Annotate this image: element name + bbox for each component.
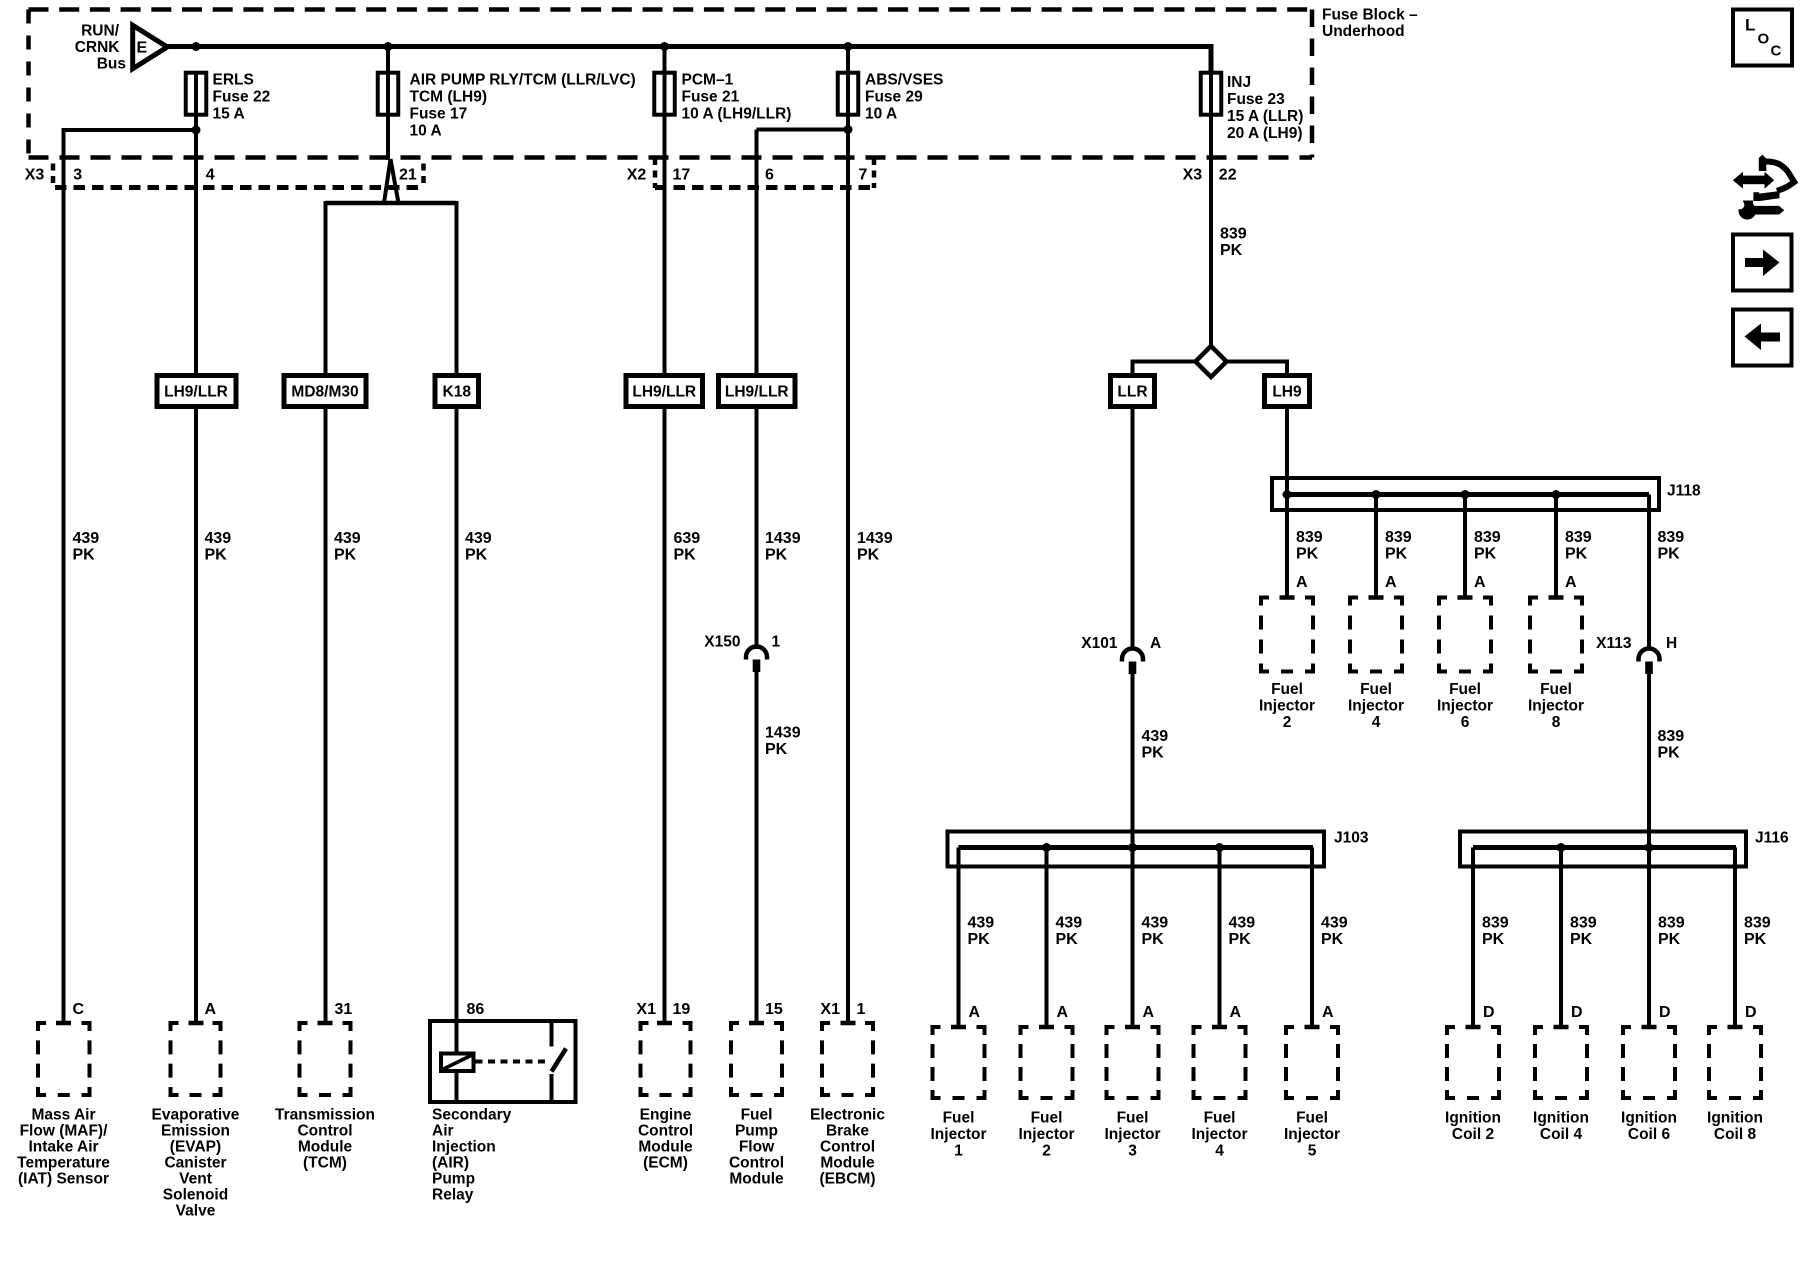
wire label 839 PK (inj 2) — [1296, 529, 1323, 563]
svg-text:1: 1 — [857, 1001, 866, 1018]
fuel injector 2 label — [1259, 681, 1315, 731]
wire 839 PK X113 to J116 — [1647, 674, 1651, 1027]
fuel injector 1 bottom box — [931, 1025, 987, 1100]
svg-text:PK: PK — [1385, 546, 1408, 563]
svg-text:Module: Module — [729, 1171, 784, 1188]
svg-text:Evaporative: Evaporative — [152, 1107, 240, 1124]
fuel pump module T-foot — [749, 1021, 764, 1026]
ignition coil 6 box — [1621, 1025, 1677, 1100]
svg-text:X1: X1 — [636, 1001, 656, 1018]
J103 junction node x1132.5 — [1128, 843, 1137, 852]
svg-text:X2: X2 — [627, 167, 647, 184]
svg-text:A: A — [1474, 574, 1486, 591]
fuse block label — [1322, 7, 1418, 41]
bus source triangle E — [133, 25, 168, 68]
LOC icon box — [1733, 10, 1792, 66]
fuse F21 PCM-1 10A — [654, 72, 791, 123]
svg-text:15 A: 15 A — [213, 106, 245, 123]
splice pack J118 — [1272, 478, 1659, 510]
svg-text:Injection: Injection — [432, 1139, 496, 1156]
fuse F29 ABS/VSES 10A — [838, 72, 944, 123]
svg-text:17: 17 — [673, 167, 691, 184]
wire label 439 PK (bottom inj 5) — [1321, 915, 1348, 949]
svg-text:A: A — [969, 1004, 981, 1021]
svg-text:839: 839 — [1658, 915, 1685, 932]
ECM box — [639, 1021, 693, 1097]
svg-text:4: 4 — [1215, 1143, 1224, 1160]
wire label 839 PK (coil 6) — [1658, 915, 1685, 949]
svg-text:PK: PK — [1658, 745, 1681, 762]
svg-text:J103: J103 — [1334, 830, 1369, 847]
junction node below fuse 29 — [844, 125, 853, 134]
wire 839 PK to ignition coil 8 — [1728, 848, 1743, 1028]
svg-text:Solenoid: Solenoid — [163, 1187, 228, 1204]
svg-text:AIR PUMP RLY/TCM (LLR/LVC): AIR PUMP RLY/TCM (LLR/LVC) — [410, 72, 636, 89]
svg-text:439: 439 — [1056, 915, 1083, 932]
svg-text:Secondary: Secondary — [432, 1107, 512, 1124]
wire 439 PK to fuel injector 3 (bottom) — [1125, 848, 1140, 1028]
fuel injector 4 label — [1348, 681, 1404, 731]
MAF T-foot — [56, 1021, 71, 1026]
EBCM T-foot — [841, 1021, 856, 1026]
ignition coil 8 label — [1707, 1110, 1763, 1144]
splice pack J103 — [948, 832, 1325, 867]
svg-text:1439: 1439 — [765, 530, 801, 547]
wire 439 PK pin3 to MAF — [64, 130, 197, 1023]
svg-text:Fuse 17: Fuse 17 — [410, 106, 468, 123]
wire label 439 PK — [73, 530, 100, 564]
diagnostic wrench icon — [1733, 155, 1794, 220]
svg-text:Injector: Injector — [1348, 698, 1404, 715]
fuel injector 4 bottom label — [1192, 1110, 1248, 1160]
junction node fuse22 output — [192, 126, 201, 135]
svg-text:LLR: LLR — [1117, 384, 1147, 401]
fuel injector 5 bottom box — [1284, 1025, 1340, 1100]
svg-text:A: A — [1230, 1004, 1242, 1021]
pin D ignition coil 8 — [1745, 1004, 1757, 1021]
svg-text:PK: PK — [1474, 546, 1497, 563]
fuel injector 6 box — [1437, 596, 1493, 674]
fuse block pin labels X3 3 4 21 X2 17 6 7 X3 22 — [25, 167, 1237, 184]
inline connector X101 pin A — [1081, 635, 1161, 674]
TCM label — [275, 1107, 375, 1172]
svg-text:5: 5 — [1308, 1143, 1317, 1160]
pin A fuel injector 8 — [1565, 574, 1577, 591]
svg-text:PK: PK — [1142, 745, 1165, 762]
connector tick after pin 21 — [421, 164, 426, 189]
svg-text:PK: PK — [1056, 931, 1079, 948]
svg-text:2: 2 — [1283, 714, 1292, 731]
svg-text:Coil 8: Coil 8 — [1714, 1126, 1757, 1143]
svg-text:D: D — [1571, 1004, 1583, 1021]
svg-text:(TCM): (TCM) — [303, 1155, 347, 1172]
svg-text:PK: PK — [1296, 546, 1319, 563]
svg-text:19: 19 — [673, 1001, 691, 1018]
wire label 439 PK (bottom inj 3) — [1142, 915, 1169, 949]
svg-text:839: 839 — [1385, 529, 1412, 546]
svg-text:D: D — [1745, 1004, 1757, 1021]
fuel injector 4 bottom box — [1192, 1025, 1248, 1100]
next page arrow button — [1733, 235, 1792, 291]
svg-text:Control: Control — [729, 1155, 784, 1172]
connector X3 dashed edge line (left) — [55, 185, 423, 190]
svg-text:Temperature: Temperature — [17, 1155, 110, 1172]
svg-text:Pump: Pump — [735, 1123, 778, 1140]
J103 label — [1334, 830, 1369, 847]
svg-text:PK: PK — [1220, 242, 1243, 259]
svg-text:PK: PK — [334, 547, 357, 564]
wire 839 PK fuse23 to splice — [1209, 73, 1213, 347]
svg-text:Module: Module — [820, 1155, 875, 1172]
svg-text:Coil 4: Coil 4 — [1540, 1126, 1583, 1143]
svg-text:Module: Module — [298, 1139, 353, 1156]
wire 839 PK to ignition coil 6 — [1642, 848, 1657, 1028]
fuse F22 ERLS 15A — [186, 72, 270, 123]
wire 439 PK X101 to J103 — [1131, 674, 1135, 1027]
svg-text:15 A (LLR): 15 A (LLR) — [1227, 108, 1303, 125]
wire 439 PK to fuel injector 1 (bottom) — [951, 848, 966, 1028]
svg-text:439: 439 — [1142, 728, 1169, 745]
pin A fuel injector 6 — [1474, 574, 1486, 591]
svg-text:PK: PK — [1570, 931, 1593, 948]
svg-text:Bus: Bus — [97, 56, 126, 73]
fuel injector 8 box — [1528, 596, 1584, 674]
fuse F23 INJ — [1201, 73, 1304, 142]
pin D ignition coil 2 — [1483, 1004, 1495, 1021]
pin A fuel injector 4 — [1385, 574, 1397, 591]
svg-text:Control: Control — [297, 1123, 352, 1140]
svg-text:31: 31 — [335, 1001, 353, 1018]
svg-text:A: A — [1150, 635, 1161, 652]
svg-text:Fuel: Fuel — [741, 1107, 773, 1124]
svg-text:Injector: Injector — [1192, 1126, 1248, 1143]
secondary AIR pump relay box with coil and switch — [430, 1021, 576, 1102]
svg-text:(EBCM): (EBCM) — [820, 1171, 876, 1188]
svg-text:Injector: Injector — [1437, 698, 1493, 715]
svg-text:PK: PK — [1658, 546, 1681, 563]
svg-text:Mass Air: Mass Air — [31, 1107, 95, 1124]
ignition coil 4 label — [1533, 1110, 1589, 1144]
code box MD8/M30 — [284, 376, 366, 407]
svg-text:4: 4 — [206, 167, 215, 184]
svg-text:3: 3 — [73, 167, 82, 184]
svg-text:PK: PK — [1229, 931, 1252, 948]
EBCM box — [820, 1021, 875, 1097]
splice diamond — [1196, 346, 1227, 377]
svg-text:6: 6 — [1461, 714, 1470, 731]
EVAP canister vent solenoid valve box — [169, 1021, 223, 1097]
svg-text:PK: PK — [1744, 931, 1767, 948]
svg-text:Fuse 21: Fuse 21 — [682, 89, 740, 106]
svg-text:8: 8 — [1552, 714, 1561, 731]
svg-text:Emission: Emission — [161, 1123, 230, 1140]
wire 439 PK to TCM — [324, 201, 328, 1023]
pin 15 fuel pump module — [765, 1001, 783, 1018]
svg-text:PK: PK — [1658, 931, 1681, 948]
wire label 439 PK (X101) — [1142, 728, 1169, 762]
svg-text:CRNK: CRNK — [75, 39, 121, 56]
ignition coil 6 label — [1621, 1110, 1677, 1144]
fuel pump flow control module box — [729, 1021, 784, 1097]
svg-text:PK: PK — [968, 931, 991, 948]
svg-text:RUN/: RUN/ — [81, 23, 120, 40]
svg-text:Fuel: Fuel — [1360, 681, 1392, 698]
svg-text:439: 439 — [465, 530, 492, 547]
svg-text:INJ: INJ — [1227, 74, 1251, 91]
svg-text:Pump: Pump — [432, 1171, 475, 1188]
svg-text:Injector: Injector — [1019, 1126, 1075, 1143]
wire label 839 PK (X113) — [1658, 728, 1685, 762]
wire label 839 PK (inj 8) — [1565, 529, 1592, 563]
svg-text:Intake Air: Intake Air — [28, 1139, 98, 1156]
wire label 839 PK (J118 right) — [1658, 529, 1685, 563]
svg-text:21: 21 — [399, 167, 417, 184]
wire split link — [326, 201, 457, 206]
pin A fuel injector 1 bottom — [969, 1004, 981, 1021]
MAF/IAT sensor label — [17, 1107, 110, 1188]
svg-text:Flow: Flow — [739, 1139, 775, 1156]
wire label 1439 PK (below X150) — [765, 725, 801, 759]
svg-text:Ignition: Ignition — [1533, 1110, 1589, 1127]
svg-text:Engine: Engine — [640, 1107, 692, 1124]
svg-text:PK: PK — [765, 547, 788, 564]
svg-text:Brake: Brake — [826, 1123, 869, 1140]
pin A fuel injector 3 bottom — [1143, 1004, 1155, 1021]
fuel injector 6 label — [1437, 681, 1493, 731]
svg-text:839: 839 — [1570, 915, 1597, 932]
bus junction node at fuse 21 — [660, 42, 669, 51]
wire label 639 PK — [674, 530, 701, 564]
wire label 439 PK — [465, 530, 492, 564]
svg-text:Fuel: Fuel — [1449, 681, 1481, 698]
EBCM label — [810, 1107, 885, 1188]
pin D ignition coil 4 — [1571, 1004, 1583, 1021]
wire 439 PK to AIR pump relay — [455, 201, 459, 1053]
svg-text:Canister: Canister — [164, 1155, 226, 1172]
svg-text:(AIR): (AIR) — [432, 1155, 469, 1172]
svg-text:Air: Air — [432, 1123, 454, 1140]
svg-text:6: 6 — [765, 167, 774, 184]
ECM T-foot — [657, 1021, 672, 1026]
svg-text:10 A: 10 A — [410, 123, 442, 140]
bus junction node at fuse 17 — [384, 42, 393, 51]
inline connector X150 pin 1 — [704, 634, 780, 673]
svg-text:(IAT) Sensor: (IAT) Sensor — [18, 1171, 109, 1188]
RUN/CRNK bus wire — [166, 47, 1211, 76]
pin A EVAP — [205, 1001, 217, 1018]
ignition coil 4 box — [1533, 1025, 1589, 1100]
connector tick X3 left — [51, 164, 56, 189]
splice split at pin 21 — [384, 159, 399, 203]
wire 839 PK to fuel injector 2 — [1280, 495, 1295, 598]
svg-text:Control: Control — [638, 1123, 693, 1140]
fuse F17 AIR PUMP RLY/TCM 10A — [378, 72, 636, 140]
wire 839 PK to fuel injector 4 — [1369, 495, 1384, 598]
svg-text:PK: PK — [73, 547, 96, 564]
previous page arrow button — [1733, 310, 1792, 366]
wire 439 PK pin4 to EVAP valve — [194, 114, 198, 1023]
svg-text:3: 3 — [1128, 1143, 1137, 1160]
svg-text:Ignition: Ignition — [1621, 1110, 1677, 1127]
svg-text:Fuel: Fuel — [943, 1110, 975, 1127]
TCM T-foot — [318, 1021, 333, 1026]
svg-text:1439: 1439 — [765, 725, 801, 742]
svg-text:Injector: Injector — [1105, 1126, 1161, 1143]
svg-text:439: 439 — [73, 530, 100, 547]
svg-text:TCM (LH9): TCM (LH9) — [410, 89, 488, 106]
svg-text:H: H — [1666, 635, 1677, 652]
J116 junction node x1649 — [1645, 843, 1654, 852]
svg-text:LH9/LLR: LH9/LLR — [632, 384, 696, 401]
svg-text:J118: J118 — [1667, 483, 1701, 500]
J118 junction node x1376 — [1372, 490, 1381, 499]
J118 label — [1667, 483, 1701, 500]
svg-text:Fuse 29: Fuse 29 — [865, 89, 923, 106]
pin A fuel injector 4 bottom — [1230, 1004, 1242, 1021]
svg-text:ERLS: ERLS — [213, 72, 254, 89]
svg-text:E: E — [137, 40, 148, 57]
J116 label — [1755, 830, 1789, 847]
svg-text:22: 22 — [1219, 167, 1237, 184]
wire 839 PK to ignition coil 2 — [1466, 848, 1481, 1028]
pin 31 TCM — [335, 1001, 353, 1018]
svg-text:Relay: Relay — [432, 1187, 474, 1204]
wire 839 PK to fuel injector 8 — [1549, 495, 1564, 598]
svg-text:C: C — [1771, 43, 1782, 60]
wire label 839 PK (INJ) — [1220, 226, 1247, 260]
RUN/CRNK Bus label — [75, 23, 126, 73]
svg-text:Fuel: Fuel — [1031, 1110, 1063, 1127]
svg-text:Fuel: Fuel — [1540, 681, 1572, 698]
svg-text:839: 839 — [1220, 226, 1247, 243]
svg-text:Electronic: Electronic — [810, 1107, 885, 1124]
svg-text:A: A — [1565, 574, 1577, 591]
svg-text:L: L — [1745, 16, 1755, 35]
fuel injector 2 bottom label — [1019, 1110, 1075, 1160]
svg-text:Coil 6: Coil 6 — [1628, 1126, 1671, 1143]
svg-text:A: A — [205, 1001, 217, 1018]
J118 junction node x1287 — [1283, 490, 1292, 499]
svg-text:PK: PK — [674, 547, 697, 564]
pin D ignition coil 6 — [1659, 1004, 1671, 1021]
svg-text:839: 839 — [1474, 529, 1501, 546]
svg-text:PK: PK — [465, 547, 488, 564]
wire label 839 PK (coil 2) — [1482, 915, 1509, 949]
svg-text:PK: PK — [205, 547, 228, 564]
svg-text:X101: X101 — [1081, 635, 1118, 652]
wire 839 PK to ignition coil 4 — [1554, 848, 1569, 1028]
wire label 1439 PK — [765, 530, 801, 564]
svg-text:Injector: Injector — [1259, 698, 1315, 715]
inline connector X113 pin H — [1596, 635, 1677, 674]
svg-text:4: 4 — [1372, 714, 1381, 731]
connector tick X2 left — [653, 158, 658, 188]
svg-text:A: A — [1057, 1004, 1069, 1021]
svg-text:Injector: Injector — [931, 1126, 987, 1143]
svg-text:Ignition: Ignition — [1707, 1110, 1763, 1127]
bus junction node at fuse 29 — [844, 42, 853, 51]
svg-text:PK: PK — [1142, 931, 1165, 948]
splice pack J116 — [1460, 832, 1746, 867]
J103 junction node x1219.5 — [1215, 843, 1224, 852]
svg-text:Injector: Injector — [1284, 1126, 1340, 1143]
svg-text:PK: PK — [1321, 931, 1344, 948]
fuel injector 4 box — [1348, 596, 1404, 674]
EVAP valve label — [152, 1107, 240, 1220]
TCM box — [298, 1021, 353, 1097]
code box LH9 — [1265, 376, 1310, 407]
svg-text:X113: X113 — [1596, 635, 1632, 652]
wire LLR branch — [1133, 362, 1198, 650]
svg-text:439: 439 — [334, 530, 361, 547]
svg-text:C: C — [73, 1001, 85, 1018]
svg-text:839: 839 — [1658, 728, 1685, 745]
svg-text:10 A: 10 A — [865, 106, 897, 123]
wire 439 PK to fuel injector 2 (bottom) — [1039, 848, 1054, 1028]
svg-text:K18: K18 — [443, 384, 472, 401]
code box LLR — [1111, 376, 1155, 407]
wire LH9 branch — [1225, 362, 1287, 495]
svg-text:X150: X150 — [704, 634, 740, 651]
J118 junction node x1465 — [1461, 490, 1470, 499]
pin A fuel injector 2 bottom — [1057, 1004, 1069, 1021]
wire label 439 PK — [334, 530, 361, 564]
wire label 439 PK (bottom inj 1) — [968, 915, 995, 949]
wire 439 PK to fuel injector 5 (bottom) — [1305, 848, 1320, 1028]
fuel injector 5 bottom label — [1284, 1110, 1340, 1160]
svg-text:7: 7 — [859, 167, 868, 184]
svg-text:Module: Module — [638, 1139, 693, 1156]
wire 1439 PK branch pin6 — [757, 128, 849, 132]
svg-text:PK: PK — [1482, 931, 1505, 948]
fuel injector 3 bottom label — [1105, 1110, 1161, 1160]
wire 439 PK to fuel injector 4 (bottom) — [1212, 848, 1227, 1028]
svg-text:Fuel: Fuel — [1117, 1110, 1149, 1127]
pin X1 1 EBCM — [820, 1001, 865, 1018]
svg-text:439: 439 — [1142, 915, 1169, 932]
svg-text:Coil 2: Coil 2 — [1452, 1126, 1494, 1143]
fuel injector 3 bottom box — [1105, 1025, 1161, 1100]
pin X1 19 ECM — [636, 1001, 690, 1018]
svg-text:439: 439 — [205, 530, 232, 547]
svg-text:D: D — [1483, 1004, 1495, 1021]
svg-text:Flow (MAF)/: Flow (MAF)/ — [20, 1123, 109, 1140]
svg-text:PK: PK — [1565, 546, 1588, 563]
ignition coil 2 label — [1445, 1110, 1501, 1144]
svg-text:Fuse 23: Fuse 23 — [1227, 91, 1285, 108]
code box LH9/LLR — [626, 376, 703, 407]
wire label 839 PK (inj 4) — [1385, 529, 1412, 563]
fuse block - underhood dashed boundary — [29, 10, 1313, 158]
svg-text:PCM–1: PCM–1 — [682, 72, 734, 89]
svg-text:839: 839 — [1658, 529, 1685, 546]
wire label 839 PK (coil 4) — [1570, 915, 1597, 949]
svg-text:Valve: Valve — [176, 1203, 216, 1220]
svg-text:A: A — [1143, 1004, 1155, 1021]
svg-text:439: 439 — [968, 915, 995, 932]
svg-text:86: 86 — [467, 1001, 485, 1018]
fuel injector 2 bottom box — [1019, 1025, 1075, 1100]
bus junction node at fuse 22 — [192, 42, 201, 51]
svg-text:X3: X3 — [1183, 167, 1203, 184]
fuel injector 8 label — [1528, 681, 1584, 731]
svg-text:X1: X1 — [820, 1001, 840, 1018]
wire label 439 PK (bottom inj 4) — [1229, 915, 1256, 949]
ECM label — [638, 1107, 693, 1172]
svg-text:Ignition: Ignition — [1445, 1110, 1501, 1127]
svg-text:Underhood: Underhood — [1322, 23, 1405, 40]
svg-text:839: 839 — [1565, 529, 1592, 546]
